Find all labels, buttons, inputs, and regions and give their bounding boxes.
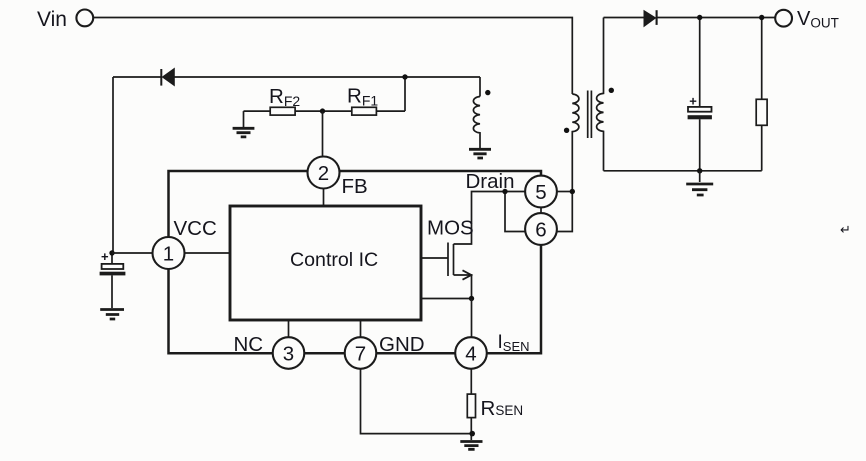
svg-text:ISEN: ISEN	[498, 332, 530, 354]
svg-text:FB: FB	[342, 175, 368, 198]
pin 2 circle	[308, 157, 340, 189]
transformer T1 secondary winding	[597, 18, 604, 171]
svg-text:Drain: Drain	[466, 170, 515, 193]
inductor aux winding	[473, 97, 480, 149]
wire IC sense output to MOS source	[421, 298, 472, 300]
diode D1 (VCC rectifier, cathode left)	[161, 69, 174, 86]
IC box Control IC	[230, 206, 421, 320]
svg-text:VOUT: VOUT	[797, 8, 839, 31]
junction RF1 top on rail	[402, 74, 407, 79]
pin 5 circle	[525, 176, 557, 208]
transformer T1 core	[588, 91, 592, 139]
pin 6 circle	[525, 213, 557, 245]
phase dot aux winding	[485, 90, 490, 95]
wire output bottom rail	[604, 170, 762, 172]
wire pin3 stem	[288, 320, 290, 337]
junction drain branch	[502, 189, 507, 194]
svg-text:NC: NC	[234, 333, 264, 356]
resistor RF1	[323, 107, 406, 115]
pin 4 circle	[455, 337, 487, 369]
junction Rload top	[759, 15, 764, 20]
junction primary/pin5	[570, 189, 575, 194]
diode D2 (output rectifier)	[644, 10, 657, 26]
svg-text:Control IC: Control IC	[290, 249, 378, 271]
svg-text:+: +	[689, 94, 697, 109]
svg-text:RF2: RF2	[269, 85, 300, 109]
wire Vin rail to transformer primary top	[93, 18, 572, 95]
svg-text:VCC: VCC	[174, 217, 217, 240]
svg-text:↵: ↵	[840, 222, 851, 237]
wire link pin5-pin6	[540, 208, 542, 214]
svg-text:5: 5	[535, 181, 546, 204]
capacitor Cvcc (polarized)	[100, 249, 126, 308]
wire FB node down to pin 2	[322, 111, 324, 157]
resistor RSEN	[467, 394, 475, 418]
junction RF1/RF2/FB node	[320, 108, 325, 113]
svg-text:MOS: MOS	[427, 217, 474, 240]
capacitor Cout (polarized)	[688, 18, 712, 171]
ground at RF2 left	[233, 111, 255, 137]
wire pin5 right to primary	[557, 191, 572, 193]
wire pin7 to RSEN ground	[361, 369, 473, 434]
svg-text:6: 6	[535, 218, 546, 241]
ground at RSEN	[460, 442, 482, 450]
junction MOS source / ISEN	[469, 296, 474, 301]
wire outer loop top edge	[169, 171, 542, 237]
junction Cout bottom	[697, 168, 702, 173]
ground at aux winding	[469, 149, 491, 158]
pin 3 circle	[273, 337, 305, 369]
svg-text:RSEN: RSEN	[481, 397, 524, 420]
junction Cout top	[697, 15, 702, 20]
wire pin7 stem	[360, 320, 362, 337]
resistor RF2	[244, 107, 323, 115]
phase dot primary	[564, 128, 569, 133]
svg-text:7: 7	[355, 342, 366, 365]
wire outer loop left and bottom edge	[169, 245, 542, 353]
junction RSEN ground / pin7	[469, 431, 475, 437]
svg-text:3: 3	[283, 342, 294, 365]
pin 1 circle	[153, 237, 185, 269]
svg-text:Vin: Vin	[37, 8, 67, 31]
transistor Q1 MOS	[421, 243, 472, 299]
ground at output	[686, 171, 713, 195]
wire drain net: MOS drain up and right to pin5	[454, 192, 526, 245]
terminal Vin	[76, 10, 93, 27]
svg-text:4: 4	[465, 342, 476, 365]
wire pin1 to Cvcc and to IC	[112, 252, 230, 254]
svg-text:2: 2	[318, 162, 329, 185]
pin 7 circle	[345, 337, 377, 369]
svg-text:1: 1	[163, 242, 174, 265]
resistor Rload	[756, 18, 767, 171]
ground at Cvcc	[100, 310, 124, 320]
wire VCC top rail through D1 to aux winding	[113, 77, 480, 253]
wire pin4 bottom to RSEN	[470, 369, 472, 394]
svg-text:RF1: RF1	[347, 85, 378, 109]
wire RF1 right up to VCC rail	[404, 77, 406, 111]
transformer T1 primary winding	[557, 94, 579, 232]
wire RSEN bottom to ground	[470, 418, 472, 440]
wire pin2 stem to IC	[323, 189, 325, 207]
svg-text:GND: GND	[379, 333, 425, 356]
wire secondary top rail	[604, 17, 776, 19]
terminal VOUT	[775, 10, 792, 27]
wire ISEN node down to pin 4	[471, 299, 473, 338]
svg-text:+: +	[101, 249, 109, 264]
phase dot secondary	[609, 88, 614, 93]
junction Cvcc top / pin1 wire	[109, 250, 114, 255]
